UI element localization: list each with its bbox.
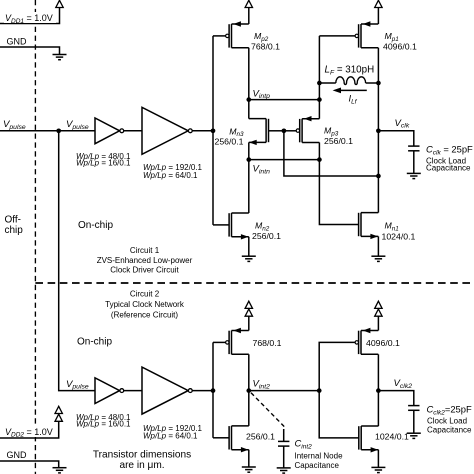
svg-text:Transistor dimensions: Transistor dimensions [93, 449, 191, 460]
transistor Mp2 [226, 21, 249, 48]
node junction gate rail circuit1 [211, 128, 216, 133]
inductor LF coil [336, 77, 366, 85]
node Vintn at xB rail [317, 157, 322, 162]
svg-text:1024/0.1: 1024/0.1 [382, 232, 416, 242]
svg-text:Typical Clock Network: Typical Clock Network [105, 300, 185, 309]
node Vclk [376, 128, 381, 133]
svg-text:Vclk2: Vclk2 [394, 378, 413, 390]
wire P768 drain to node Vint2 to N256 drain [248, 354, 250, 426]
wire Cclk2 bottom to ground [413, 410, 415, 433]
wire P768 source to VDD2 [248, 316, 250, 331]
svg-text:Cclk = 25pF: Cclk = 25pF [426, 143, 473, 156]
svg-text:Internal Node: Internal Node [295, 452, 344, 461]
svg-text:chip: chip [5, 225, 24, 236]
svg-text:1024/0.1: 1024/0.1 [375, 432, 409, 442]
power symbol VDD above Mp2 [245, 0, 252, 7]
svg-text:256/0.1: 256/0.1 [252, 231, 281, 241]
ground Cclk [407, 173, 421, 178]
svg-text:Wp/Lp = 64/0.1: Wp/Lp = 64/0.1 [143, 171, 198, 180]
svg-text:4096/0.1: 4096/0.1 [383, 42, 417, 52]
wire N256 source to ground [248, 450, 250, 467]
ground GND1 rail [53, 55, 67, 60]
inverter U2 [142, 107, 192, 154]
svg-text:Wp/Lp = 16/0.1: Wp/Lp = 16/0.1 [76, 420, 131, 429]
power symbol VDD1 top-left [56, 0, 63, 7]
wire inverter U3 to U4 [124, 390, 142, 392]
wire inductor right lead [366, 82, 379, 84]
svg-text:768/0.1: 768/0.1 [253, 338, 282, 348]
ground N256 source [242, 467, 256, 472]
wire Cint2 bottom to ground [283, 446, 285, 468]
node Vintp at xB rail [317, 97, 322, 102]
svg-text:Cclk2=25pF: Cclk2=25pF [427, 404, 472, 417]
wire Mp3 drain down to Vintn [318, 143, 320, 160]
svg-text:GND: GND [7, 450, 28, 460]
inverter U1 [95, 118, 124, 144]
node inductor left [317, 81, 322, 86]
wire Mp2 gate [213, 35, 226, 37]
wire gate rail circuit 1 (Mp2/Mn2 gates) [212, 36, 214, 225]
node Vclk2 [376, 388, 381, 393]
capacitor Cclk [408, 146, 419, 151]
wire inductor left lead [319, 82, 335, 84]
wire Mn3 gate [269, 130, 284, 132]
inverter U4 [142, 367, 192, 414]
wire Vclk to load capacitor [378, 131, 413, 146]
svg-text:256/0.1: 256/0.1 [215, 136, 244, 146]
svg-text:Vint2: Vint2 [253, 379, 271, 391]
wire VDD2 rail [0, 422, 59, 438]
svg-text:256/0.1: 256/0.1 [246, 432, 275, 442]
svg-text:ZVS-Enhanced Low-power: ZVS-Enhanced Low-power [97, 256, 193, 265]
transistor P768 circuit2 [226, 328, 249, 355]
transistor Mn3 (mirrored) [249, 119, 269, 146]
capacitor Cclk2 [408, 406, 419, 411]
dashed divider circuit1/circuit2 [35, 282, 474, 284]
wire P768 gate [213, 341, 226, 343]
ground Cint2 [277, 468, 291, 473]
wire node Vint2 to xB rail [249, 390, 319, 392]
svg-text:256/0.1: 256/0.1 [324, 136, 353, 146]
wire Mp2 drain to Mn3 drain via node Vintp [248, 7, 250, 118]
arrow ILf current direction [340, 89, 367, 91]
mask for VDD2 label [4, 426, 56, 437]
wire Mp1 gate / inductor left / Vintp rail [318, 36, 320, 119]
wire Mp1 drain / inductor right / Vclk / Mn1 drain rail [377, 48, 379, 213]
transistor P4096 circuit2 [355, 328, 378, 355]
wire Mn1 source to ground [377, 236, 379, 256]
wire inverter U1 to U2 [124, 130, 142, 132]
wire Mn3 source to Vintn to Mn2 drain [248, 142, 250, 213]
wire Vpulse input (circuit 1) [0, 130, 95, 132]
svg-text:Vpulse: Vpulse [66, 119, 89, 131]
wire Vint2 up to P4096 gate [319, 342, 355, 390]
wire N1024 source to ground [377, 450, 379, 467]
capacitor Cint2 [278, 441, 289, 446]
svg-text:768/0.1: 768/0.1 [251, 42, 280, 52]
wire inverter U4 output to gate rail [192, 390, 213, 392]
svg-text:Off-: Off- [5, 214, 21, 225]
wire N256 gate [213, 437, 229, 439]
node junction gate rail circuit2 [211, 388, 216, 393]
svg-text:4096/0.1: 4096/0.1 [366, 338, 400, 348]
svg-text:Vintp: Vintp [253, 88, 271, 100]
node junction Vpulse split [56, 128, 61, 133]
wire Vpulse branch down to circuit 2 input [59, 131, 95, 391]
svg-text:Wp/Lp = 64/0.1: Wp/Lp = 64/0.1 [143, 432, 198, 441]
wire Mp1 source to VDD [377, 7, 379, 24]
power symbol VDD above Mp1 [375, 0, 382, 7]
wire VDD1 rail [0, 7, 60, 23]
transistor Mn2 [229, 213, 249, 240]
svg-text:Wp/Lp = 16/0.1: Wp/Lp = 16/0.1 [76, 158, 131, 167]
node Vint2 at xB rail [317, 388, 322, 393]
power symbol VDD2 double triangle above P4096 [375, 301, 382, 308]
transistor Mp3 [296, 116, 319, 143]
node cross-couple at Vclk rail [376, 174, 381, 179]
svg-text:Vpulse: Vpulse [66, 379, 89, 391]
node cross-couple gates [282, 128, 287, 133]
svg-text:Capacitance: Capacitance [295, 461, 340, 470]
svg-text:(Reference Circuit): (Reference Circuit) [111, 311, 178, 320]
svg-text:Vclk: Vclk [395, 118, 410, 130]
svg-text:Capacitance: Capacitance [427, 425, 472, 434]
svg-text:On-chip: On-chip [78, 220, 113, 231]
transistor Mn1 [359, 213, 379, 240]
svg-text:Vintn: Vintn [253, 164, 271, 176]
svg-text:LF = 310pH: LF = 310pH [325, 65, 375, 77]
ground Mn2 source [242, 256, 256, 261]
node inductor right [376, 81, 381, 86]
wire Mp1 gate horizontal [319, 35, 355, 37]
dashed chip boundary vertical (off-chip/on-chip) [34, 0, 36, 474]
wire Cclk bottom to ground [413, 151, 415, 173]
ground Cclk2 [407, 433, 421, 438]
svg-text:Cint2: Cint2 [295, 438, 313, 451]
dashed connection Vint2 to Cint2 [251, 393, 284, 430]
wire Vclk2 to load capacitor [378, 391, 413, 406]
wire Mp3 gate [284, 130, 297, 132]
wire node Vintn to xB rail [249, 159, 320, 161]
svg-text:are in μm.: are in μm. [119, 460, 164, 471]
wire inverter U2 output to gate rail [192, 130, 213, 132]
transistor N1024 circuit2 [359, 426, 379, 453]
wire Mn2 gate [213, 224, 229, 226]
transistor N256 circuit2 [229, 426, 249, 453]
wire Mn2 source to ground [248, 237, 250, 256]
svg-text:Capacitance: Capacitance [426, 164, 471, 173]
node Vintp [246, 97, 251, 102]
wire gate rail circuit 2 [212, 342, 214, 437]
svg-text:Circuit 1: Circuit 1 [130, 246, 160, 255]
wire GND1 rail [0, 47, 60, 54]
wire cross-couple gate node to Vclk [284, 131, 379, 176]
svg-text:Circuit 2: Circuit 2 [130, 290, 160, 299]
wire P4096 drain to node Vclk2 to N1024 drain [377, 354, 379, 426]
svg-text:On-chip: On-chip [77, 337, 112, 348]
ground N1024 source [371, 467, 385, 472]
transistor Mp1 [355, 21, 378, 48]
wire Vintn down to Mn1 gate [319, 160, 358, 225]
mask for VDD1 label [4, 12, 56, 23]
svg-text:Clock Driver Circuit: Clock Driver Circuit [110, 266, 179, 275]
wire node Vintp to xB rail [249, 99, 320, 101]
svg-text:GND: GND [7, 36, 28, 46]
wire GND2 rail [0, 461, 59, 468]
node Vint2 [246, 388, 251, 393]
wire P4096 source to VDD2 [377, 316, 379, 331]
svg-text:Vpulse: Vpulse [3, 119, 26, 131]
node Vintn [246, 157, 251, 162]
wire Cint2 top lead [283, 429, 285, 441]
power symbol VDD2 double triangle above P768 [245, 301, 252, 308]
ground Mn1 source [371, 256, 385, 261]
svg-text:ILf: ILf [349, 94, 358, 106]
wire Vint2 down to N1024 gate [319, 391, 359, 438]
power symbol VDD2 double triangle bottom-left [55, 406, 62, 413]
inverter U3 [95, 378, 124, 404]
ground GND2 rail [53, 468, 67, 473]
